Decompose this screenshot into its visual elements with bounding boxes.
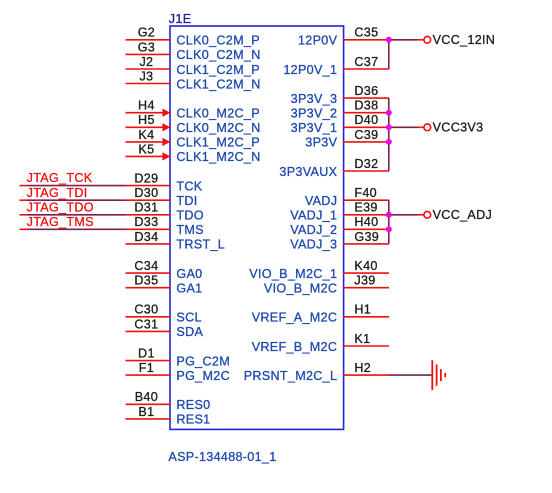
svg-text:K4: K4 xyxy=(138,128,154,142)
pin B40 (RES0) xyxy=(126,390,211,412)
svg-text:CLK0_M2C_N: CLK0_M2C_N xyxy=(176,121,260,135)
svg-text:H5: H5 xyxy=(138,113,155,127)
connector J1E body xyxy=(170,26,344,429)
junction C35 xyxy=(386,37,392,43)
svg-text:CLK1_C2M_N: CLK1_C2M_N xyxy=(176,77,260,91)
svg-text:CLK0_C2M_P: CLK0_C2M_P xyxy=(176,34,260,48)
svg-text:VADJ_1: VADJ_1 xyxy=(290,209,337,223)
svg-text:D31: D31 xyxy=(134,201,158,215)
junction C39 xyxy=(386,139,392,145)
pin D32 (3P3VAUX) xyxy=(279,157,389,179)
wire VADJ bus vertical (F40-G39) xyxy=(388,200,390,244)
pin D34 (TRST_L) xyxy=(126,230,226,252)
svg-text:VCC_ADJ: VCC_ADJ xyxy=(433,208,493,222)
svg-text:C37: C37 xyxy=(354,55,378,69)
svg-text:3P3VAUX: 3P3VAUX xyxy=(279,165,337,179)
wire H2 to ground xyxy=(389,374,432,376)
svg-text:G2: G2 xyxy=(138,26,155,40)
svg-text:J39: J39 xyxy=(354,274,375,288)
svg-text:C30: C30 xyxy=(134,303,158,317)
junction E39 xyxy=(386,212,392,218)
svg-text:VADJ_2: VADJ_2 xyxy=(290,223,337,237)
svg-text:JTAG_TCK: JTAG_TCK xyxy=(27,171,93,185)
svg-text:GA0: GA0 xyxy=(176,267,202,281)
wire net JTAG_TDI xyxy=(20,199,126,201)
svg-text:H4: H4 xyxy=(138,99,155,113)
svg-text:H40: H40 xyxy=(354,215,378,229)
svg-text:VREF_A_M2C: VREF_A_M2C xyxy=(252,311,338,325)
svg-text:JTAG_TDO: JTAG_TDO xyxy=(27,200,94,214)
pin D38 (3P3V_2) xyxy=(291,99,389,121)
svg-text:VIO_B_M2C: VIO_B_M2C xyxy=(264,282,337,296)
pin H2 (PRSNT_M2C_L) xyxy=(244,361,389,383)
svg-text:D35: D35 xyxy=(134,274,158,288)
pin K40 (VIO_B_M2C_1) xyxy=(249,259,389,281)
pin J39 (VIO_B_M2C) xyxy=(264,274,389,296)
svg-text:PRSNT_M2C_L: PRSNT_M2C_L xyxy=(244,369,338,383)
svg-text:K5: K5 xyxy=(138,142,154,156)
svg-text:H1: H1 xyxy=(354,303,371,317)
svg-text:CLK1_C2M_P: CLK1_C2M_P xyxy=(176,63,260,77)
wire VCC_ADJ branch xyxy=(389,214,424,216)
pin H1 (VREF_A_M2C) xyxy=(252,303,389,325)
svg-text:VADJ_3: VADJ_3 xyxy=(290,238,337,252)
junction H40 xyxy=(386,226,392,232)
svg-text:CLK1_M2C_P: CLK1_M2C_P xyxy=(176,136,260,150)
svg-text:B40: B40 xyxy=(135,390,158,404)
svg-text:F1: F1 xyxy=(139,361,154,375)
svg-text:D40: D40 xyxy=(354,113,378,127)
svg-text:K1: K1 xyxy=(354,332,370,346)
svg-text:JTAG_TDI: JTAG_TDI xyxy=(27,186,88,200)
svg-text:J1E: J1E xyxy=(169,12,192,26)
svg-text:CLK1_M2C_N: CLK1_M2C_N xyxy=(176,150,260,164)
svg-text:TDI: TDI xyxy=(176,194,197,208)
wire VCC_12IN branch xyxy=(389,39,424,41)
svg-text:D34: D34 xyxy=(134,230,158,244)
junction D40 xyxy=(386,124,392,130)
svg-text:GA1: GA1 xyxy=(176,282,202,296)
svg-text:TRST_L: TRST_L xyxy=(176,238,225,252)
wire 3P3V bus vertical (D36-D32) xyxy=(388,98,390,171)
svg-text:VADJ: VADJ xyxy=(305,194,337,208)
svg-text:D30: D30 xyxy=(134,186,158,200)
svg-text:E39: E39 xyxy=(354,201,377,215)
pin D1 (PG_C2M) xyxy=(126,347,230,369)
svg-text:TCK: TCK xyxy=(176,179,202,193)
svg-text:D38: D38 xyxy=(354,99,378,113)
wire VCC3V3 branch xyxy=(389,126,424,128)
svg-text:RES1: RES1 xyxy=(176,413,210,427)
svg-text:K40: K40 xyxy=(354,259,377,273)
svg-text:12P0V: 12P0V xyxy=(298,34,338,48)
pin K5 (CLK1_M2C_N) xyxy=(126,142,261,164)
svg-text:TDO: TDO xyxy=(176,209,203,223)
pin J3 (CLK1_C2M_N) xyxy=(126,69,261,91)
power symbol VCC3V3 xyxy=(424,121,484,135)
pin H40 (VADJ_2) xyxy=(290,215,389,237)
svg-text:B1: B1 xyxy=(138,405,154,419)
svg-text:PG_M2C: PG_M2C xyxy=(176,369,230,383)
svg-text:D36: D36 xyxy=(354,84,378,98)
svg-text:VIO_B_M2C_1: VIO_B_M2C_1 xyxy=(249,267,337,281)
svg-text:ASP-134488-01_1: ASP-134488-01_1 xyxy=(168,450,276,464)
pin D33 (TMS) xyxy=(126,215,204,237)
pin F1 (PG_M2C) xyxy=(126,361,230,383)
svg-text:SCL: SCL xyxy=(176,311,201,325)
pin C34 (GA0) xyxy=(126,259,203,281)
svg-text:3P3V_2: 3P3V_2 xyxy=(291,107,338,121)
ground (earth) symbol xyxy=(432,360,445,390)
svg-text:G3: G3 xyxy=(138,40,155,54)
svg-text:D29: D29 xyxy=(134,172,158,186)
pin C37 (12P0V_1) xyxy=(283,55,389,77)
pin G2 (CLK0_C2M_P) xyxy=(126,26,260,48)
wire 12P0V bus vertical (C35-C37) xyxy=(388,40,390,69)
svg-text:C34: C34 xyxy=(134,259,158,273)
svg-text:C35: C35 xyxy=(354,26,378,40)
pin D35 (GA1) xyxy=(126,274,203,296)
svg-text:H2: H2 xyxy=(354,361,371,375)
svg-text:PG_C2M: PG_C2M xyxy=(176,354,230,368)
svg-text:CLK0_M2C_P: CLK0_M2C_P xyxy=(176,107,260,121)
svg-text:JTAG_TMS: JTAG_TMS xyxy=(27,215,94,229)
pin E39 (VADJ_1) xyxy=(290,201,389,223)
svg-text:SDA: SDA xyxy=(176,325,203,339)
pin C30 (SCL) xyxy=(126,303,202,325)
svg-text:D1: D1 xyxy=(138,347,155,361)
svg-text:3P3V: 3P3V xyxy=(305,136,337,150)
svg-text:CLK0_C2M_N: CLK0_C2M_N xyxy=(176,48,260,62)
svg-text:TMS: TMS xyxy=(176,223,203,237)
svg-text:F40: F40 xyxy=(354,186,377,200)
pin D36 (3P3V_3) xyxy=(291,84,389,106)
wire net JTAG_TDO xyxy=(20,214,126,216)
pin D30 (TDI) xyxy=(126,186,198,208)
pin B1 (RES1) xyxy=(126,405,211,427)
pin J2 (CLK1_C2M_P) xyxy=(126,55,260,77)
wire net JTAG_TCK xyxy=(20,185,126,187)
svg-text:D32: D32 xyxy=(354,157,378,171)
svg-text:3P3V_3: 3P3V_3 xyxy=(291,92,338,106)
svg-text:3P3V_1: 3P3V_1 xyxy=(291,121,338,135)
pin H4 (CLK0_M2C_P) xyxy=(126,99,260,121)
pin D29 (TCK) xyxy=(126,172,203,194)
svg-text:VCC_12IN: VCC_12IN xyxy=(433,33,496,47)
power symbol VCC_12IN xyxy=(424,33,495,47)
power symbol VCC_ADJ xyxy=(424,208,492,222)
svg-text:J3: J3 xyxy=(139,69,153,83)
svg-text:VREF_B_M2C: VREF_B_M2C xyxy=(252,340,338,354)
svg-text:C31: C31 xyxy=(134,317,158,331)
junction D38 xyxy=(386,110,392,116)
pin H5 (CLK0_M2C_N) xyxy=(126,113,261,135)
wire net JTAG_TMS xyxy=(20,228,126,230)
pin K1 (VREF_B_M2C) xyxy=(252,332,389,354)
svg-text:RES0: RES0 xyxy=(176,398,210,412)
svg-text:D33: D33 xyxy=(134,215,158,229)
pin K4 (CLK1_M2C_P) xyxy=(126,128,260,150)
pin G3 (CLK0_C2M_N) xyxy=(126,40,261,62)
pin F40 (VADJ) xyxy=(305,186,389,208)
pin G39 (VADJ_3) xyxy=(290,230,389,252)
svg-text:12P0V_1: 12P0V_1 xyxy=(283,63,337,77)
pin D40 (3P3V_1) xyxy=(291,113,389,135)
pin D31 (TDO) xyxy=(126,201,204,223)
pin C39 (3P3V) xyxy=(305,128,389,150)
svg-text:VCC3V3: VCC3V3 xyxy=(433,121,484,135)
svg-text:J2: J2 xyxy=(139,55,153,69)
pin C35 (12P0V) xyxy=(298,26,389,48)
svg-text:C39: C39 xyxy=(354,128,378,142)
svg-text:G39: G39 xyxy=(354,230,379,244)
pin C31 (SDA) xyxy=(126,317,204,339)
